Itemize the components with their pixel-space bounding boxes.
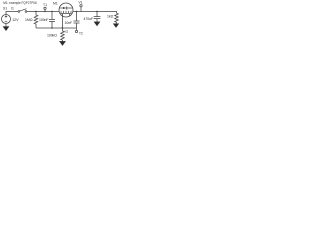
note: M1 part annotation bbox=[3, 1, 37, 5]
resistor R2 1k bbox=[107, 15, 114, 19]
terminal T1 bbox=[43, 3, 47, 7]
wire gate down to bottom rail bbox=[62, 13, 64, 28]
wire bottom rail bbox=[36, 27, 77, 29]
MOSFET M1 (P-channel, in circle) bbox=[59, 3, 73, 17]
svg-text:I1: I1 bbox=[11, 7, 14, 11]
node dot R1 top bbox=[35, 11, 36, 12]
node dot C1 top bbox=[51, 11, 52, 12]
svg-text:100kΩ: 100kΩ bbox=[47, 34, 57, 38]
node dot C2 top bbox=[76, 11, 77, 12]
svg-text:S1: S1 bbox=[3, 7, 7, 11]
svg-text:T2: T2 bbox=[79, 31, 83, 35]
switch S1 bbox=[18, 11, 20, 13]
wire top rail (MOSFET to right corner) bbox=[73, 12, 117, 14]
svg-text:M1: example FQP27P06: M1: example FQP27P06 bbox=[3, 1, 37, 5]
svg-text:470uF: 470uF bbox=[84, 17, 93, 21]
svg-text:10nF: 10nF bbox=[65, 21, 73, 25]
wire bottom rail corner down to terminal bbox=[76, 28, 78, 30]
ground (R2) bbox=[113, 24, 119, 28]
label at gate node bbox=[65, 30, 69, 34]
svg-text:V1: V1 bbox=[79, 1, 83, 5]
wire top rail (switch to MOSFET) bbox=[27, 11, 59, 13]
node dot C3 top bbox=[96, 11, 97, 12]
terminal T2 bbox=[75, 30, 77, 32]
capacitor C1 100nF bbox=[39, 18, 48, 22]
wire battery top to rail bbox=[6, 12, 18, 15]
terminal Vout bbox=[79, 1, 83, 5]
node dot T1 bbox=[44, 11, 45, 12]
capacitor C3 470u bbox=[84, 17, 93, 21]
ground (C3) bbox=[94, 22, 100, 26]
ground (battery) bbox=[3, 27, 9, 31]
node dot C1 bottom bbox=[51, 27, 52, 28]
resistor R3 100k bbox=[47, 34, 57, 38]
svg-text:S2: S2 bbox=[65, 30, 69, 34]
svg-text:100nF: 100nF bbox=[39, 18, 48, 22]
svg-text:1kΩ: 1kΩ bbox=[107, 15, 114, 19]
svg-text:1MΩ: 1MΩ bbox=[25, 18, 33, 22]
wire battery bottom to ground bbox=[5, 24, 7, 27]
switch S1 label bbox=[3, 7, 14, 11]
svg-text:M1: M1 bbox=[53, 2, 58, 6]
ground (R3) bbox=[59, 41, 65, 45]
resistor R1 1M bbox=[25, 18, 33, 22]
svg-text:12V: 12V bbox=[12, 18, 19, 22]
battery V1 12V bbox=[2, 15, 11, 24]
MOSFET M1 label bbox=[53, 2, 58, 6]
capacitor C2 10nF bbox=[65, 21, 73, 25]
node dot gate/R3 bbox=[62, 27, 63, 28]
svg-text:T1: T1 bbox=[43, 3, 47, 7]
